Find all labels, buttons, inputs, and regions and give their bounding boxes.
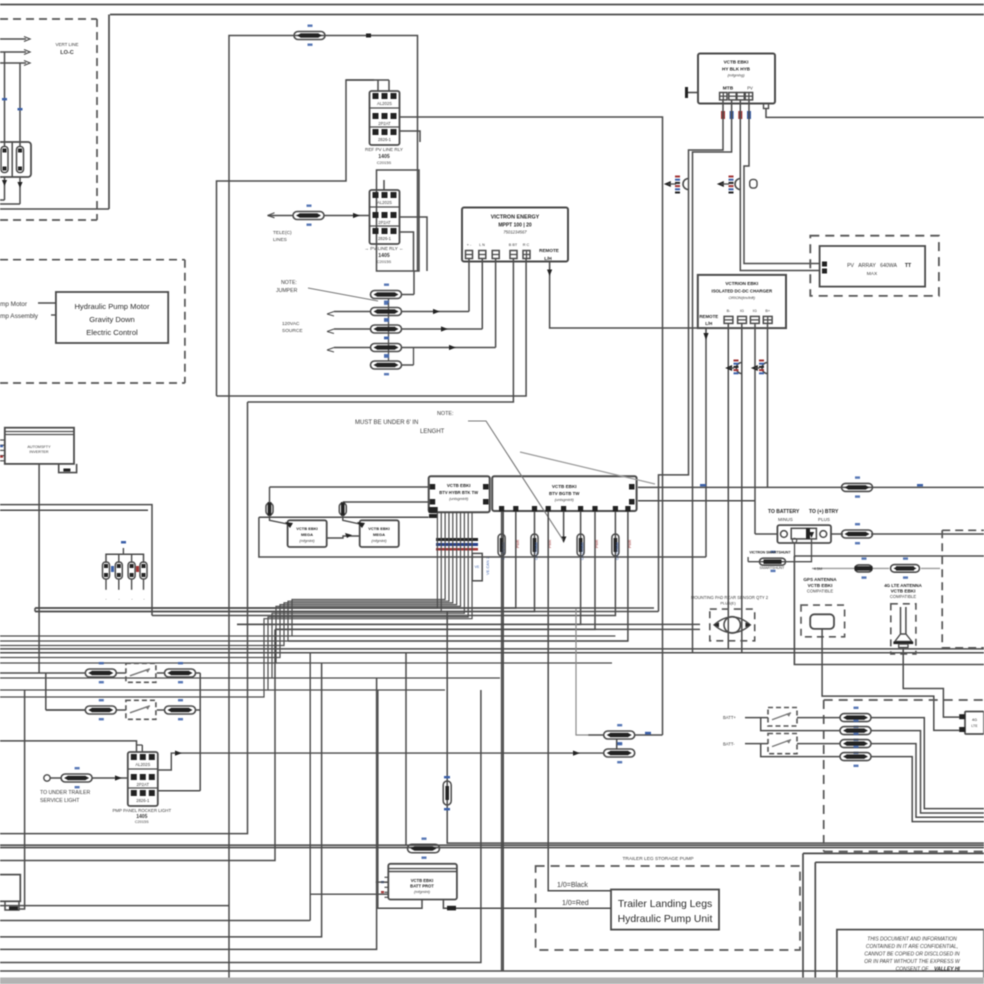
wire K3 out right2: [158, 751, 604, 771]
svg-text:PWR: PWR: [628, 539, 632, 548]
fuse F5: [128, 562, 135, 590]
row 1 service connectors: [0, 662, 200, 683]
wire U3 p1 down: [727, 323, 729, 649]
svg-text:BTV BGTB TW: BTV BGTB TW: [549, 491, 580, 496]
svg-text:1/0=Red: 1/0=Red: [562, 900, 589, 907]
mark wire labels red: [516, 539, 632, 548]
svg-text:(mfgmlnt): (mfgmlnt): [299, 539, 314, 543]
wire serpentine: [217, 80, 375, 396]
pins U7 left: [381, 877, 388, 897]
svg-text:4.5M: 4.5M: [814, 567, 822, 571]
wire loop2: [761, 744, 840, 757]
wire bus h9: [0, 652, 984, 654]
svg-text:VCTB EBKI: VCTB EBKI: [411, 878, 434, 883]
wire U7 foot left: [377, 900, 422, 909]
svg-text:(mfgmlnt): (mfgmlnt): [414, 890, 431, 894]
connector stack K2: [370, 190, 400, 244]
wire bus h4: [237, 623, 700, 625]
fuse F6: [140, 562, 147, 590]
svg-text:VE: VE: [475, 565, 480, 569]
wire J5 left: [327, 329, 371, 334]
svg-text:LTE: LTE: [971, 724, 978, 728]
wire sw4 in: [745, 743, 768, 745]
wire shunt sense loop: [748, 539, 811, 562]
svg-text:Gravity Down: Gravity Down: [89, 315, 135, 324]
label mounting pad: [691, 595, 769, 606]
wire light box: [576, 609, 588, 735]
dashed box gps: [801, 605, 845, 637]
connector J13 inline: [842, 523, 984, 544]
svg-text:TT: TT: [905, 263, 912, 269]
component fuse box A: [288, 520, 327, 547]
connector J4 inline: [371, 301, 402, 322]
pins U4 left: [0, 440, 5, 461]
svg-text:JUMPER: JUMPER: [276, 288, 298, 294]
svg-text:BTV HYBR BTK TW: BTV HYBR BTK TW: [439, 490, 478, 495]
wire v503: [502, 512, 504, 972]
svg-text:REF PV LINE RLY: REF PV LINE RLY: [365, 147, 403, 152]
wire jumper link: [402, 271, 415, 295]
svg-text:VCTB EBKI: VCTB EBKI: [724, 60, 749, 65]
label K3: [112, 808, 171, 824]
svg-text:CONTAINED IN IT ARE CONFIDENTI: CONTAINED IN IT ARE CONFIDENTIAL,: [866, 944, 958, 950]
svg-text:VCTB EBKI: VCTB EBKI: [552, 484, 577, 489]
label to battery plus: [809, 509, 839, 522]
connector inline vertical: [498, 534, 505, 556]
svg-text:THIS DOCUMENT AND INFORMATION: THIS DOCUMENT AND INFORMATION: [867, 937, 957, 943]
wire left pair b: [0, 509, 148, 511]
svg-text:ORION(tm/lnft): ORION(tm/lnft): [728, 295, 755, 300]
wire battery drop 2: [19, 63, 21, 146]
svg-text:VE.CAN 2: VE.CAN 2: [485, 556, 490, 575]
connector J19 inline: [840, 733, 871, 754]
svg-text:REMOTE: REMOTE: [699, 314, 718, 319]
pins U3: [699, 309, 772, 326]
wire jumper vert: [388, 299, 390, 362]
component U7 battery protect: [388, 864, 457, 900]
wire feeder 2: [0, 50, 30, 55]
connector inline vertical: [531, 534, 538, 556]
connector J2 inline tele: [268, 205, 325, 226]
svg-text:VICTRON SMARTSHUNT: VICTRON SMARTSHUNT: [749, 551, 791, 555]
label batt minus: [723, 742, 735, 747]
wire v321: [0, 663, 322, 937]
svg-text:120VAC: 120VAC: [282, 321, 300, 327]
label io black: [557, 882, 588, 889]
connector J1 inline: [294, 25, 325, 46]
wire battery drop 1: [4, 52, 6, 146]
svg-text:→ PV LINE RLY ←: → PV LINE RLY ←: [364, 246, 403, 251]
mark fuse labels: [105, 566, 145, 601]
component pump control text box: [56, 292, 168, 343]
svg-text:CANNOT BE COPIED OR DISCLOSED: CANNOT BE COPIED OR DISCLOSED IN: [864, 952, 960, 958]
label note jumper: [276, 280, 298, 294]
svg-text:MTB: MTB: [723, 86, 734, 92]
wire U5 in2: [343, 501, 429, 503]
wire U7 foot right: [443, 900, 611, 911]
svg-text:MEGA: MEGA: [373, 532, 385, 537]
antenna symbol: [893, 607, 913, 648]
svg-text:C2015S: C2015S: [377, 160, 392, 165]
connector J20 inline: [840, 746, 871, 767]
title text: [864, 937, 961, 973]
dashed box trailer legs: [536, 866, 800, 950]
svg-text:PLUS(E): PLUS(E): [720, 601, 736, 606]
svg-text:VCTB EBKI: VCTB EBKI: [808, 583, 833, 588]
svg-text:L/H: L/H: [705, 321, 712, 326]
svg-text:VCTB EBKI: VCTB EBKI: [368, 526, 390, 531]
svg-text:TELE(C): TELE(C): [273, 230, 292, 236]
connector J22 inline: [588, 724, 662, 745]
wire fuse bracket: [106, 554, 144, 563]
component gps module: [810, 614, 834, 629]
label tele lines: [273, 230, 292, 243]
component U4 inverter: [5, 428, 74, 464]
pins U1: [466, 243, 559, 261]
svg-text:MOUNTING PAD REAR SENSOR QTY 2: MOUNTING PAD REAR SENSOR QTY 2: [691, 595, 769, 600]
svg-text:2826-1: 2826-1: [378, 236, 392, 241]
wire bus h7: [288, 640, 628, 642]
connector split C: [725, 360, 742, 375]
component shunt: [777, 525, 831, 543]
wire rows join left: [46, 673, 86, 710]
label pump motor: [0, 301, 56, 308]
wire J11 to B: [343, 515, 365, 528]
fuse F3: [103, 562, 110, 590]
label K2: [364, 246, 403, 264]
svg-text:7501234567: 7501234567: [503, 230, 527, 235]
connector split B: [717, 176, 757, 194]
svg-text:VCTB EBKI: VCTB EBKI: [447, 483, 471, 488]
sensor eye: [714, 617, 750, 633]
wire left pair a: [0, 505, 152, 616]
wire bus h12: [268, 689, 445, 691]
wire shunt right: [831, 533, 843, 535]
label note length: [355, 411, 453, 435]
connector J15 inline: [855, 557, 873, 578]
fuse F4: [115, 562, 122, 590]
wire v447: [447, 612, 984, 843]
wire U6 drop: [35, 512, 516, 609]
connector J23 inline: [573, 742, 635, 763]
svg-text:2P2AT: 2P2AT: [137, 782, 150, 787]
svg-text:L N: L N: [479, 243, 485, 247]
svg-text:SOURCE: SOURCE: [282, 328, 303, 334]
connector split D: [751, 360, 768, 375]
svg-text:AL202S: AL202S: [377, 200, 392, 205]
svg-text:L/H: L/H: [544, 256, 552, 261]
svg-text:Hydraulic Pump Unit: Hydraulic Pump Unit: [618, 914, 713, 925]
wire U6 drop: [288, 512, 628, 642]
wire K1 right b: [400, 131, 421, 142]
svg-text:+ -: + -: [467, 243, 472, 247]
wire U1 pin5 down: [217, 259, 527, 397]
label io red: [562, 900, 589, 907]
svg-text:TO (+) BTRY: TO (+) BTRY: [809, 509, 839, 515]
wire bus h6: [292, 635, 615, 637]
wire sw4 out: [797, 743, 840, 745]
connector J7 inline: [371, 354, 402, 375]
wire K1 right a: [400, 117, 663, 735]
dashed box PV array: [810, 236, 939, 296]
svg-text:MAX: MAX: [867, 271, 878, 277]
wire bus h1: [35, 607, 654, 609]
svg-text:R C: R C: [523, 243, 530, 247]
label batt plus: [723, 715, 736, 720]
frame title inner: [815, 862, 984, 984]
connector inline vertical: [612, 534, 619, 556]
label 120vac source: [282, 321, 303, 334]
label pump assembly: [0, 313, 56, 320]
svg-text:VALLEY HI: VALLEY HI: [934, 967, 960, 973]
mark blue 920: [700, 484, 923, 486]
pins U6 bottom: [499, 506, 631, 512]
wire U3 p4 down: [638, 323, 984, 487]
svg-text:BATT-: BATT-: [723, 742, 735, 747]
wire v275: [0, 629, 275, 860]
wire bus h8: [0, 648, 984, 650]
svg-text:1/0=Black: 1/0=Black: [557, 882, 588, 889]
label gps antenna: [803, 577, 837, 594]
wire bus h10: [276, 662, 612, 664]
wire J21 up: [405, 653, 407, 845]
svg-text:C2015S: C2015S: [377, 259, 392, 264]
dashed box battery compartment: [0, 19, 97, 220]
svg-text:VCTB EBKI: VCTB EBKI: [891, 589, 916, 594]
label service light: [40, 790, 91, 804]
wire coax gray: [812, 567, 940, 569]
svg-text:B BT: B BT: [509, 243, 518, 247]
wire U4 down: [38, 464, 40, 673]
wire sw3 in: [745, 717, 768, 719]
component fuse box B: [360, 520, 399, 547]
svg-text:TO UNDER TRAILER: TO UNDER TRAILER: [40, 790, 91, 796]
component PV array: [820, 246, 926, 287]
wire bus h2: [35, 611, 659, 613]
wire v377b: [377, 690, 379, 908]
wire K2 right a: [400, 217, 428, 271]
mark wire codes: [2, 98, 23, 110]
svg-text:PV: PV: [747, 86, 753, 91]
svg-text:2P2AT: 2P2AT: [378, 121, 391, 126]
terminal ring: [44, 775, 50, 781]
svg-text:LINES: LINES: [273, 237, 287, 243]
svg-text:IG: IG: [740, 309, 744, 313]
wire fuse bracket feed: [121, 541, 126, 554]
wire U6 drop long: [501, 512, 503, 972]
svg-text:MEGA: MEGA: [301, 532, 313, 537]
svg-text:SERVICE LIGHT: SERVICE LIGHT: [40, 798, 80, 804]
pin U2 br: [764, 104, 769, 109]
fuse holder F1 F2: [0, 142, 31, 177]
svg-text:VERT LINE: VERT LINE: [55, 42, 78, 47]
leader note b: [520, 452, 655, 484]
svg-text:AL202S: AL202S: [135, 762, 150, 767]
svg-text:mp Motor: mp Motor: [0, 301, 28, 308]
svg-text:BATT PROT: BATT PROT: [410, 884, 434, 889]
svg-text:4G: 4G: [972, 718, 977, 722]
wire K3 right out: [158, 790, 200, 792]
wire top-left horizontal y209: [0, 208, 109, 210]
row 2 service connectors: [46, 699, 200, 720]
wire loop1: [761, 718, 840, 731]
wire shunt left: [755, 533, 777, 535]
svg-text:REMOTE: REMOTE: [539, 248, 559, 253]
wire BL loop: [19, 690, 25, 909]
wire J4 left: [327, 312, 371, 317]
svg-text:mp Assembly: mp Assembly: [0, 313, 39, 320]
wire bundle fan: [0, 512, 472, 697]
dashed box batt right: [942, 530, 984, 648]
trailer frame top: [110, 14, 984, 16]
dashed box lte: [891, 604, 916, 654]
svg-text:MINUS: MINUS: [778, 517, 793, 522]
wire K3 feed: [0, 741, 142, 752]
wire U5 in3: [259, 516, 429, 518]
connector J21 inline: [408, 838, 440, 859]
label lte antenna: [884, 583, 922, 599]
connector J11 inline: [339, 502, 346, 516]
wire feeder 1: [0, 37, 30, 42]
component U6 bus bar B: [492, 476, 636, 511]
component U3 ORION: [698, 275, 786, 328]
wire pv pos: [744, 100, 820, 264]
connector J24 vertical: [443, 776, 451, 810]
wire J8 loop: [659, 100, 724, 612]
wire shunt drop: [794, 543, 796, 558]
wire y971: [0, 970, 984, 972]
svg-text:TO BATTERY: TO BATTERY: [768, 509, 800, 515]
connector J14 inline: [842, 476, 873, 497]
wire J10 to A: [270, 515, 294, 528]
dashed box pump control: [0, 260, 185, 383]
wire J9 loop: [693, 100, 732, 653]
svg-text:MUST BE UNDER 6' IN: MUST BE UNDER 6' IN: [355, 420, 418, 426]
dashed box group: [824, 700, 984, 852]
wire K2 feed: [383, 180, 385, 190]
svg-text:Trailer Landing Legs: Trailer Landing Legs: [618, 899, 712, 910]
switch SW4: [768, 734, 797, 754]
wire top border: [0, 4, 984, 6]
component junction box BL: [0, 875, 20, 910]
svg-text:(untsgmtrlt): (untsgmtrlt): [449, 497, 469, 501]
frame title outer: [803, 853, 984, 984]
svg-text:AL202S: AL202S: [377, 101, 392, 106]
mark wire labels blue: [502, 542, 620, 560]
svg-text:Hydraulic Pump Motor: Hydraulic Pump Motor: [74, 302, 150, 311]
wire J6 left: [327, 348, 371, 353]
svg-text:Electric Control: Electric Control: [86, 328, 138, 337]
svg-text:SMARTSHUNT: SMARTSHUNT: [760, 566, 786, 570]
svg-text:BATT+: BATT+: [723, 715, 736, 720]
wire U6 drop: [152, 512, 615, 616]
wire stack1 feed: [346, 80, 389, 91]
connector J17 inline: [840, 707, 871, 728]
connector J5 inline: [371, 318, 402, 339]
wire U1 pin4 down: [248, 259, 514, 403]
svg-text:2826-1: 2826-1: [136, 798, 150, 803]
svg-text:COMPATIBLE: COMPATIBLE: [890, 594, 917, 599]
svg-text:2826-1: 2826-1: [378, 137, 392, 142]
wire top loop: [229, 36, 418, 980]
connector J6 inline: [371, 337, 402, 358]
wire J22-J23 link: [616, 739, 618, 750]
svg-text:NOTE:: NOTE:: [281, 280, 297, 286]
component U1 MPPT: [462, 208, 568, 262]
label coax len: [814, 567, 822, 571]
svg-text:4G LTE ANTENNA: 4G LTE ANTENNA: [884, 583, 922, 588]
title box: [837, 930, 984, 981]
label vecan blue: [485, 556, 490, 575]
svg-text:B+: B+: [765, 309, 771, 313]
trailer frame left vertical: [108, 15, 110, 210]
label to battery minus: [768, 509, 800, 522]
wire batt run 3: [871, 744, 984, 818]
svg-text:(mfgmlnt): (mfgmlnt): [371, 539, 386, 543]
wire J4 right: [402, 259, 470, 315]
component U2 CERBO: [698, 54, 775, 104]
wire U2 br out: [766, 109, 984, 118]
connector J3 inline: [371, 284, 402, 305]
svg-text:(mfgmhg): (mfgmhg): [727, 73, 745, 78]
wire feeder 3: [0, 61, 30, 66]
component U5 bus bar A: [429, 476, 490, 512]
svg-text:C2015S: C2015S: [135, 820, 149, 824]
label battery compartment: [55, 42, 78, 56]
component small relay box: [472, 553, 482, 580]
connector J10 inline: [266, 487, 273, 516]
wire v376: [0, 678, 377, 949]
scan gray band: [0, 978, 984, 984]
wire K2 right b: [400, 232, 414, 271]
svg-text:MPPT 100 | 20: MPPT 100 | 20: [498, 223, 532, 229]
svg-text:PLUS: PLUS: [818, 517, 830, 522]
wire lte down: [903, 648, 959, 718]
svg-text:PV ARRAY 640WA: PV ARRAY 640WA: [847, 263, 897, 269]
wire bus h5: [275, 628, 700, 630]
pins U2: [720, 93, 753, 100]
box right assembly: [794, 556, 984, 665]
connector split A: [664, 176, 689, 194]
wire v247: [0, 402, 248, 834]
connector stack K3: [128, 752, 158, 806]
svg-text:(untsgmtrlt): (untsgmtrlt): [555, 498, 575, 502]
svg-text:VCTB EBKI: VCTB EBKI: [296, 526, 318, 531]
wire bus h11: [272, 677, 500, 679]
svg-text:AUTOMSFTY: AUTOMSFTY: [27, 445, 51, 449]
svg-text:IG: IG: [753, 309, 757, 313]
wire fuse out 2: [17, 177, 22, 204]
wire bottom double a: [0, 844, 984, 846]
wire v480: [0, 690, 481, 963]
wire sw3 out: [797, 717, 840, 719]
label storage pump: [622, 856, 693, 862]
connector J18 inline: [840, 720, 871, 741]
wire batt run 1: [871, 718, 984, 809]
wire U5 left loop: [259, 517, 706, 557]
wire U6 drop: [35, 512, 535, 612]
svg-text:VCTRION EBKI: VCTRION EBKI: [725, 281, 758, 286]
wire U5 in1: [270, 486, 429, 488]
leader jumper: [308, 288, 378, 301]
svg-text:TRAILER LEG STORAGE PUMP: TRAILER LEG STORAGE PUMP: [622, 856, 693, 862]
box stack2 outline: [377, 170, 420, 271]
svg-text:PMP PANEL ROCKER LIGHT: PMP PANEL ROCKER LIGHT: [112, 808, 171, 813]
wire antenna stub: [561, 512, 567, 544]
junction dot: [366, 34, 371, 38]
svg-text:INVERTER: INVERTER: [29, 450, 48, 454]
connector inline vertical: [577, 534, 584, 556]
